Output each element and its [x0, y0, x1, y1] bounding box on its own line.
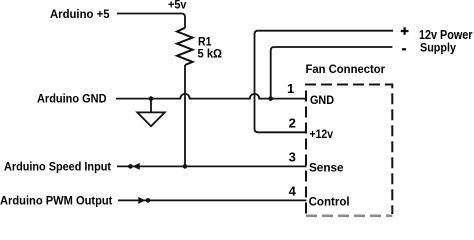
svg-text:Arduino Speed Input: Arduino Speed Input — [4, 160, 111, 174]
junction resistor bottom on Sense line — [183, 164, 188, 169]
svg-text:2: 2 — [289, 115, 296, 130]
svg-text:Arduino PWM Output: Arduino PWM Output — [0, 194, 112, 208]
svg-text:Fan Connector: Fan Connector — [306, 62, 386, 76]
svg-text:Supply: Supply — [420, 41, 456, 55]
wire Sense line to fan connector pin 3 — [117, 165, 307, 167]
svg-text:+5v: +5v — [168, 0, 187, 11]
port arrow input (points left) — [128, 164, 133, 169]
svg-text:5 kΩ: 5 kΩ — [198, 47, 223, 61]
junction - supply on GND wire — [268, 96, 273, 101]
connector J1 dashed outline (left, top, right) — [306, 85, 392, 215]
svg-text:GND: GND — [310, 93, 334, 107]
svg-text:Sense: Sense — [309, 161, 344, 175]
ground — [137, 112, 165, 126]
connector J1 dashed outline bottom (gray) — [306, 214, 392, 217]
wire - supply to GND net — [271, 47, 393, 99]
svg-text:Arduino GND: Arduino GND — [37, 92, 107, 106]
port arrow output (points right) — [138, 197, 145, 204]
wire Arduino GND to fan connector pin 1 (hops at x=185 and x=254.5) — [116, 94, 307, 99]
junction ground stub — [149, 96, 154, 101]
resistor R1 — [177, 28, 193, 65]
svg-text:4: 4 — [289, 183, 297, 198]
wire +12v power: supply + to fan connector pin 2 — [255, 31, 394, 133]
polarity + symbol — [401, 27, 409, 35]
polarity - symbol — [402, 48, 406, 50]
wire Arduino +5 to resistor top — [117, 14, 185, 28]
svg-text:+12v: +12v — [310, 127, 334, 141]
svg-text:Control: Control — [309, 195, 350, 209]
wire ground stub — [150, 99, 152, 113]
svg-text:Arduino +5: Arduino +5 — [50, 7, 110, 21]
svg-text:3: 3 — [289, 149, 296, 164]
svg-text:1: 1 — [287, 81, 294, 96]
wire resistor bottom to Sense line — [184, 65, 186, 166]
wire Control line to fan connector pin 4 — [118, 199, 307, 201]
